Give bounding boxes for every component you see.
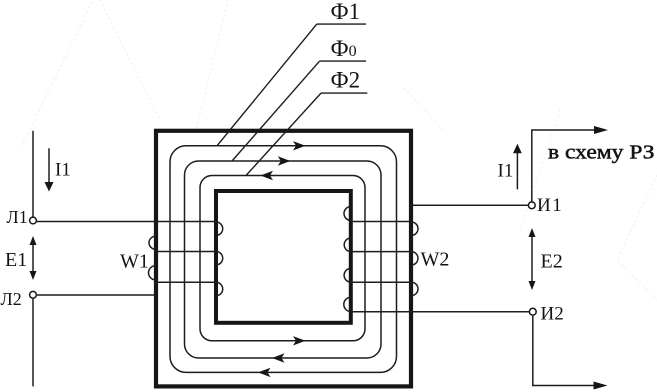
svg-text:W1: W1 (120, 251, 149, 273)
leader line F2 (246, 93, 321, 175)
wire winding to I1 terminal (411, 204, 528, 206)
svg-text:W2: W2 (421, 249, 450, 271)
secondary current arrow I1 right (516, 152, 518, 189)
left feeder wire (bottom vertical) (32, 298, 34, 386)
winding W1 outer bump 1 (149, 236, 155, 249)
arrow relay circuit return (bottom) (594, 382, 608, 390)
svg-text:E2: E2 (541, 251, 563, 273)
winding W1 inner bump 1 (216, 222, 223, 235)
svg-text:E1: E1 (5, 249, 27, 271)
winding W1 inner bump 2 (216, 252, 223, 265)
wire И2 from winding (351, 311, 529, 313)
wire L2 to core (36, 294, 155, 296)
left feeder wire (top vertical) (32, 131, 34, 217)
faint watermark lines (20, 0, 657, 300)
flux arrow F0 top (right) (278, 156, 291, 165)
winding W2 turn wire 3 (351, 281, 411, 283)
winding W1 turn wire 2 (156, 251, 217, 253)
wire И1 up to relay circuit (532, 130, 596, 202)
current arrow I1 left (48, 148, 50, 183)
flux arrow F1 bottom (left) (258, 368, 271, 377)
svg-text:Л2: Л2 (1, 289, 22, 309)
winding W2 inner bump 2 (344, 238, 351, 252)
wire L1 to winding (36, 221, 216, 223)
EMF arrow E2 (double-headed) (531, 235, 533, 283)
arrow to relay circuit (top) (594, 126, 608, 134)
svg-text:Ф1: Ф1 (331, 0, 361, 24)
winding W1 turn wire 3 (156, 281, 217, 283)
svg-text:Л1: Л1 (7, 207, 28, 227)
leader line F0 (232, 61, 320, 161)
flux line F0 (middle) (185, 161, 382, 358)
svg-text:I1: I1 (55, 160, 71, 181)
core outer square (156, 131, 411, 387)
flux arrow F0 bottom (left) (272, 353, 285, 362)
winding W2 inner bump 1 (344, 207, 351, 221)
terminal L1 (30, 217, 37, 224)
winding W2 inner bump 3 (344, 268, 351, 282)
svg-text:I1: I1 (498, 160, 514, 181)
flux line F1 (outermost) (170, 146, 397, 373)
wire И2 down to relay circuit return (533, 315, 594, 385)
terminal I1 (И1) (528, 202, 535, 209)
svg-text:И 1: И 1 (537, 195, 562, 216)
winding W2 turn wire 1 (351, 221, 411, 223)
winding W2 inner bump 4 (344, 297, 351, 311)
EMF arrow E1 (double-headed) (32, 243, 34, 273)
terminal L2 (30, 291, 37, 298)
svg-text:Ф2: Ф2 (331, 68, 361, 93)
winding W1 inner bump 3 (216, 282, 223, 295)
svg-text:И2: И2 (541, 303, 564, 324)
terminal И2 (529, 308, 536, 315)
winding W2 outer bump 1 (411, 222, 418, 235)
svg-text:в схему РЗ: в схему РЗ (548, 142, 655, 164)
flux line F2 (innermost) (200, 176, 365, 341)
label F2 underline (321, 92, 367, 94)
winding W2 outer bump 2 (411, 252, 418, 265)
winding W2 turn wire 2 (351, 251, 411, 253)
leader line F1 (217, 24, 317, 146)
label F1 underline (317, 23, 366, 25)
flux arrow F2 bottom (right) (293, 336, 306, 345)
winding W1 outer bump 2 (149, 266, 156, 280)
flux arrow F2 top (left) (261, 171, 274, 180)
flux arrow F1 top (right) (293, 141, 306, 150)
core inner square (window) (216, 191, 351, 323)
label F0 underline (320, 60, 366, 62)
winding W2 outer bump 3 (411, 282, 418, 295)
